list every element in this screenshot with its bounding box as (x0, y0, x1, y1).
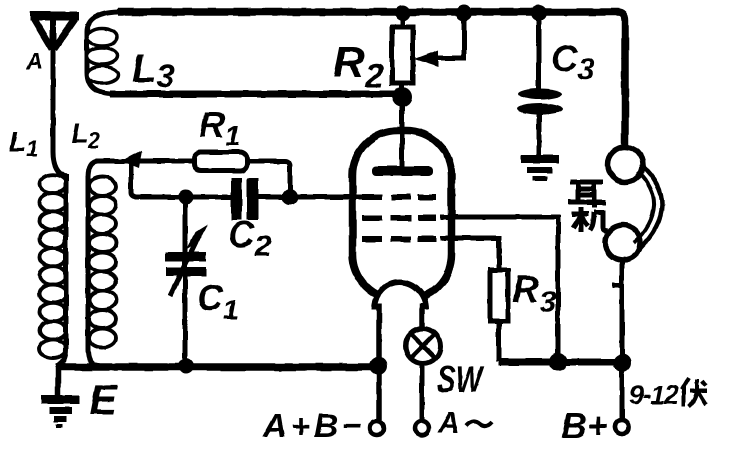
svg-text:L2: L2 (71, 118, 101, 153)
svg-text:B+: B+ (561, 405, 608, 446)
svg-text:C2: C2 (228, 214, 272, 263)
svg-text:C1: C1 (197, 277, 239, 325)
svg-text:SW: SW (437, 358, 485, 400)
svg-text:L1: L1 (9, 126, 38, 161)
svg-text:9-12: 9-12 (629, 380, 679, 410)
svg-text:R2: R2 (333, 38, 384, 95)
svg-text:A+B−: A+B− (262, 407, 361, 444)
svg-text:R1: R1 (199, 104, 241, 151)
svg-text:L3: L3 (132, 47, 174, 94)
svg-text:E: E (89, 376, 119, 423)
svg-text:A: A (437, 407, 460, 440)
svg-text:C3: C3 (551, 38, 595, 86)
svg-text:A: A (25, 48, 43, 74)
svg-text:R3: R3 (512, 269, 556, 319)
